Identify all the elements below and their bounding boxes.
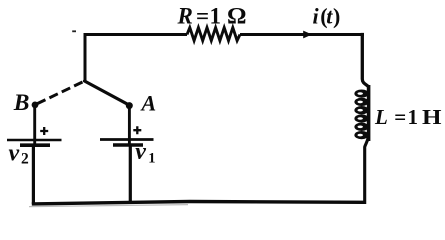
svg-text:L: L	[374, 105, 388, 129]
svg-text:v: v	[135, 139, 146, 165]
svg-text:Ω: Ω	[227, 4, 247, 29]
wire: bottom horizontal	[32, 202, 364, 204]
inductor L coil loop holes	[358, 92, 363, 136]
plus sign of V2	[40, 127, 48, 135]
svg-text:B: B	[13, 90, 30, 116]
switch solid arm to A	[85, 81, 130, 105]
wire: battery v2 down to bottom wire	[32, 145, 35, 204]
svg-text:A: A	[140, 90, 157, 115]
wire: top horizontal left segment	[84, 33, 187, 36]
current arrow head	[303, 31, 312, 39]
scan shadow under bottom wire	[29, 205, 188, 207]
battery V1 positive plate (long)	[100, 138, 154, 141]
inductor L coil loops	[354, 89, 368, 139]
inductor L coil right-side band	[367, 85, 371, 141]
node B dot	[32, 102, 39, 109]
label L = 1 H	[374, 105, 442, 129]
label i(t)	[313, 4, 341, 29]
svg-text:=: =	[394, 105, 406, 129]
battery V1 negative plate (short thick)	[113, 143, 143, 147]
wire: left vertical from top corner down to switch pivot	[84, 33, 87, 82]
node A dot	[126, 102, 133, 109]
svg-text:1: 1	[148, 151, 155, 167]
wire: battery v1 down to bottom wire	[129, 145, 132, 203]
resistor R zigzag	[187, 28, 240, 41]
label v2	[9, 140, 30, 167]
battery V2 negative plate (short thick)	[20, 143, 50, 147]
svg-text:v: v	[9, 140, 20, 166]
scan artifact dash near top-left corner	[72, 30, 76, 32]
wire: top horizontal right segment	[240, 33, 363, 36]
switch dashed arm to B	[36, 82, 83, 105]
svg-text:1: 1	[408, 105, 419, 129]
wire: right vertical upper segment (top corner down to inductor)	[362, 35, 368, 87]
plus sign of V1	[133, 126, 141, 134]
battery V2 positive plate (long)	[7, 139, 62, 142]
label R = 1 Ohm	[177, 4, 247, 29]
svg-text:2: 2	[21, 150, 29, 167]
svg-text:R: R	[177, 4, 193, 29]
svg-text:): )	[333, 4, 340, 29]
svg-text:=: =	[196, 4, 209, 29]
svg-text:1: 1	[210, 4, 222, 29]
wire: B dot down to battery v2	[33, 105, 36, 145]
svg-text:H: H	[422, 105, 442, 129]
wire: A dot down to battery v1	[128, 105, 131, 145]
wire: inductor exit to right vertical lower segment	[365, 137, 369, 204]
label v1	[135, 139, 155, 167]
svg-text:i: i	[313, 4, 320, 29]
